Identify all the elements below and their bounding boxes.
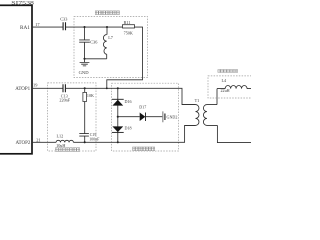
transformer T1 secondary winding [203, 105, 217, 126]
svg-text:D16: D16 [125, 99, 132, 104]
dashed box: DC-block and protection circuit [112, 83, 179, 151]
junction node at C36 top [83, 26, 85, 28]
inductor L7 [103, 27, 107, 59]
junction node diode branch top [117, 87, 119, 89]
wire diode branch vertical [117, 88, 119, 142]
svg-text:D17: D17 [139, 105, 146, 110]
svg-text:GND2: GND2 [167, 115, 178, 120]
capacitor C13 [63, 84, 65, 92]
svg-text:R11: R11 [124, 20, 131, 25]
wire D17 branch [118, 116, 162, 118]
svg-text:D18: D18 [125, 126, 132, 131]
capacitor C19 [79, 134, 89, 137]
diode D16 [112, 98, 124, 100]
dashed box: transmit band-pass filter [48, 83, 96, 151]
svg-text:19: 19 [33, 83, 38, 88]
resistor R16 [84, 88, 86, 134]
diode D18 [112, 126, 123, 132]
junction node R11 jog joins ATOP1 [106, 87, 108, 89]
wire RA1 net [32, 26, 122, 28]
ground GND [84, 59, 86, 62]
junction node at ground [83, 58, 85, 60]
wire secondary top to L4 [216, 89, 218, 105]
svg-text:L7: L7 [108, 35, 114, 40]
dashed box label (CJK) receive band-pass filter [95, 11, 119, 15]
svg-text:220nF: 220nF [59, 98, 70, 103]
svg-text:C33: C33 [60, 16, 67, 21]
diode D17 [140, 113, 146, 122]
svg-text:L12: L12 [57, 134, 64, 139]
svg-text:C19: C19 [90, 133, 97, 137]
dashed box: transmit supply filter [208, 76, 256, 98]
svg-text:C36: C36 [90, 40, 98, 45]
junction node D17 branch [117, 116, 119, 118]
svg-text:ATOP2: ATOP2 [15, 141, 30, 146]
inductor L4 [217, 85, 251, 88]
svg-text:GND: GND [79, 70, 90, 75]
junction node C19 bottom [84, 141, 86, 143]
transformer T1 primary winding [182, 105, 199, 126]
junction node diode branch bottom [117, 141, 119, 143]
svg-text:22uH: 22uH [221, 88, 230, 93]
svg-text:SI7538: SI7538 [11, 0, 34, 6]
wire R11 output jog [107, 27, 143, 88]
svg-text:10K: 10K [87, 93, 94, 98]
svg-text:ATOP1: ATOP1 [15, 87, 30, 92]
inductor L12 [56, 140, 73, 142]
wire ATOP1 net [32, 88, 196, 104]
junction node R16 top [84, 87, 86, 89]
dashed box label (CJK) transmit band-pass filter [55, 147, 81, 152]
wire ATOP2 net [32, 125, 195, 142]
svg-text:100nF: 100nF [89, 138, 100, 142]
dashed box: receive band-pass filter [74, 17, 148, 78]
svg-text:21: 21 [36, 138, 40, 143]
svg-text:T1: T1 [195, 98, 200, 103]
capacitor C33 [63, 22, 65, 30]
IC U1 box SI7538 [0, 5, 32, 154]
svg-text:L4: L4 [222, 78, 228, 83]
dashed box label (CJK) transmit supply filter [218, 70, 238, 73]
svg-text:750K: 750K [124, 31, 133, 36]
resistor R11 [123, 25, 135, 28]
wire secondary bottom out [217, 125, 251, 142]
capacitor C36 [84, 27, 86, 59]
junction node at L7 top [106, 26, 108, 28]
dashed box label (CJK) DC-block and protection circuit [132, 146, 156, 151]
node GND2 plates [162, 111, 164, 122]
svg-text:17: 17 [35, 22, 40, 27]
wire filter bottom [85, 58, 107, 60]
svg-text:RA1: RA1 [20, 25, 30, 31]
